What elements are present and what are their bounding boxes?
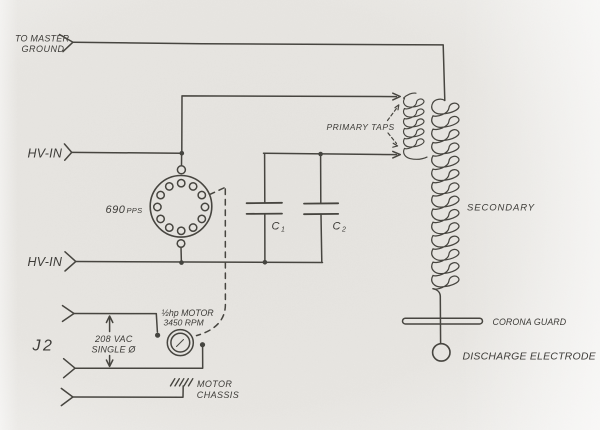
svg-text:C: C [333,221,341,233]
wire HV-IN top to spark gap [72,151,182,154]
svg-text:208 VAC: 208 VAC [94,334,133,344]
svg-text:2: 2 [341,227,346,234]
svg-text:GROUND: GROUND [22,44,65,54]
svg-text:C: C [272,221,280,233]
svg-text:CHASSIS: CHASSIS [197,390,239,400]
connector arrow HV-IN bottom [65,252,76,271]
transformer T1 primary winding [404,93,428,159]
node junction C1 bottom [263,260,268,265]
svg-text:HV-IN: HV-IN [28,255,63,269]
label TO MASTER GROUND [15,34,69,55]
svg-text:MOTOR: MOTOR [197,379,232,389]
svg-text:DISCHARGE ELECTRODE: DISCHARGE ELECTRODE [463,351,597,363]
svg-text:HV-IN: HV-IN [28,147,63,161]
label C1 [272,221,286,234]
capacitor C2 [304,154,338,262]
node junction C2 top [318,152,323,157]
wire J2 pin1 to motor terminal left [74,314,158,333]
svg-text:CORONA GUARD: CORONA GUARD [493,317,567,327]
label 208 VAC SINGLE phase [92,334,137,355]
discharge electrode [433,344,450,361]
svg-text:PRIMARY TAPS: PRIMARY TAPS [327,122,395,132]
rotary spark gap stationary electrode top [177,166,185,174]
connector arrow J2 pin 1 [63,306,74,322]
label C2 [333,221,347,234]
label 690 PPS [106,204,143,216]
label MOTOR CHASSIS [197,379,239,400]
capacitor C1 [247,154,282,263]
svg-text:SECONDARY: SECONDARY [467,203,535,214]
dashed arrow to primary top tap [388,107,398,121]
svg-text:SINGLE Ø: SINGLE Ø [92,345,137,355]
wire HV-IN bottom bus [76,262,323,263]
wire junction to spark gap top electrode [181,155,183,165]
arrowhead primary bottom tap [393,151,401,158]
wire spark gap junction riser to primary top tap [182,96,397,153]
wire spark gap bottom electrode to bus [180,247,182,262]
svg-text:PPS: PPS [127,206,143,215]
svg-text:J2: J2 [32,338,55,355]
dimension arrow 208 VAC [106,316,112,366]
node junction spark gap top [180,151,185,156]
node junction spark gap bottom [179,260,184,265]
motor M1 [167,330,193,356]
wire secondary bottom to corona guard [433,289,441,344]
connector arrow HV-IN top [64,144,71,160]
chassis ground hatching [171,379,193,386]
wire C1 top to primary bottom tap [264,153,397,154]
wire J2 pin3 to motor chassis [73,386,184,397]
svg-text:3450 RPM: 3450 RPM [164,318,205,328]
node motor terminal left [155,333,160,338]
rotary spark gap rotor electrodes [154,180,209,235]
wire motor terminal right to J2 pin2 [75,347,203,368]
connector arrow J2 pin 3 [61,388,72,405]
node motor terminal right [200,342,205,347]
mechanical coupling dashed shaft [197,188,226,336]
rotary spark gap stationary electrode bottom [177,240,185,248]
wire master ground bus to secondary top [73,42,445,100]
connector arrow J2 pin 2 [64,359,75,378]
svg-text:½hp MOTOR: ½hp MOTOR [162,308,215,318]
svg-text:690: 690 [106,204,126,216]
connector arrow TO MASTER GROUND [60,35,73,52]
svg-text:1: 1 [281,227,285,234]
transformer T1 secondary winding [432,99,459,289]
label 1/2hp MOTOR 3450 RPM [162,308,215,328]
dashed arrow to primary bottom tap [388,133,397,144]
corona guard bar [403,318,483,324]
arrowhead primary top tap [393,93,401,100]
rotary spark gap disc [150,176,212,238]
